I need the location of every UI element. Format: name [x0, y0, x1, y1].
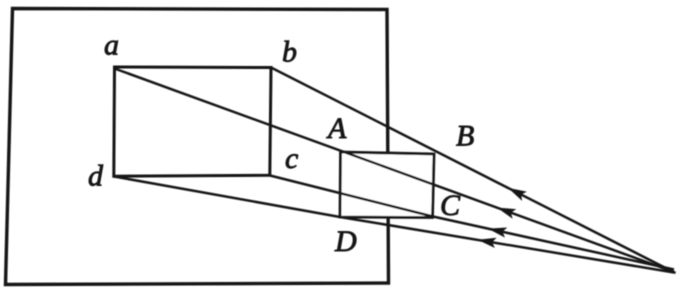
svg-text:D: D	[334, 225, 357, 258]
svg-text:A: A	[326, 112, 347, 145]
arrowhead on line c	[488, 228, 507, 238]
svg-text:a: a	[104, 29, 119, 62]
arrowhead on line a	[497, 208, 516, 219]
projection line d	[114, 177, 674, 273]
svg-text:d: d	[88, 160, 104, 193]
outer rectangle (picture plane frame)	[6, 9, 389, 285]
svg-text:c: c	[285, 142, 298, 175]
arrowhead on line d	[478, 238, 497, 248]
rectangle ABCD border	[340, 152, 434, 218]
rectangle ABCD (white fill masks frame edge)	[340, 152, 434, 218]
projection line a	[115, 69, 675, 273]
projection line b	[271, 68, 676, 274]
rectangle abcd	[114, 67, 271, 176]
projection line c	[270, 176, 674, 270]
svg-text:b: b	[282, 36, 297, 69]
arrowhead on line b	[508, 188, 527, 201]
svg-text:B: B	[456, 120, 474, 153]
svg-text:C: C	[440, 189, 461, 222]
